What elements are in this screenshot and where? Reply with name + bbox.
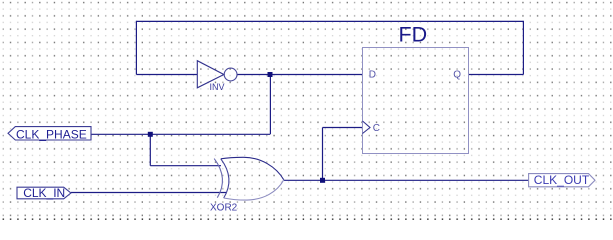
- svg-text:D: D: [369, 70, 376, 81]
- inverter U1 bubble: [224, 68, 237, 81]
- flip-flop clock chevron: [363, 121, 371, 134]
- wire CLK_IN to XOR bottom input: [71, 192, 226, 194]
- port flag CLK_OUT: [529, 174, 595, 187]
- svg-text:INV: INV: [210, 82, 225, 92]
- svg-text:C: C: [373, 123, 380, 134]
- xor gate U3 input arc inner: [221, 159, 229, 198]
- wire inverter input: [136, 74, 197, 76]
- svg-text:CLK_OUT: CLK_OUT: [534, 173, 590, 187]
- wire branch vertical to XOR top input: [149, 134, 151, 165]
- svg-text:CLK_IN: CLK_IN: [23, 186, 65, 200]
- port flag CLK_IN: [17, 187, 71, 199]
- wire inverter output to D: [237, 74, 362, 76]
- wire CLK_PHASE horizontal: [91, 133, 270, 135]
- wire feedback right vertical: [522, 21, 524, 75]
- xor gate U3 input arc outer: [214, 159, 222, 198]
- wire XOR output to CLK_OUT: [284, 179, 529, 181]
- svg-text:Q: Q: [453, 70, 461, 81]
- wire Q output: [468, 74, 523, 76]
- wire feedback left vertical: [135, 21, 137, 75]
- wire XOR top input horizontal: [150, 165, 221, 167]
- svg-text:CLK_PHASE: CLK_PHASE: [16, 127, 87, 141]
- svg-text:FD: FD: [399, 22, 428, 46]
- wire C input horizontal: [323, 127, 363, 129]
- inverter U1 triangle: [197, 61, 224, 88]
- wire feedback top rail: [136, 20, 523, 22]
- xor gate U3 bottom curve: [224, 180, 284, 200]
- svg-text:XOR2: XOR2: [210, 203, 238, 214]
- junction on D-net at inverter output: [268, 72, 273, 77]
- xor gate U3 top curve: [221, 157, 284, 180]
- wire vertical from D-net to CLK_PHASE net: [269, 75, 271, 135]
- junction on XOR output net: [320, 178, 325, 183]
- flip-flop U2 body (FD): [363, 48, 469, 154]
- wire C input vertical: [322, 128, 324, 181]
- port flag CLK_PHASE: [8, 127, 91, 140]
- junction on CLK_PHASE net: [148, 132, 153, 137]
